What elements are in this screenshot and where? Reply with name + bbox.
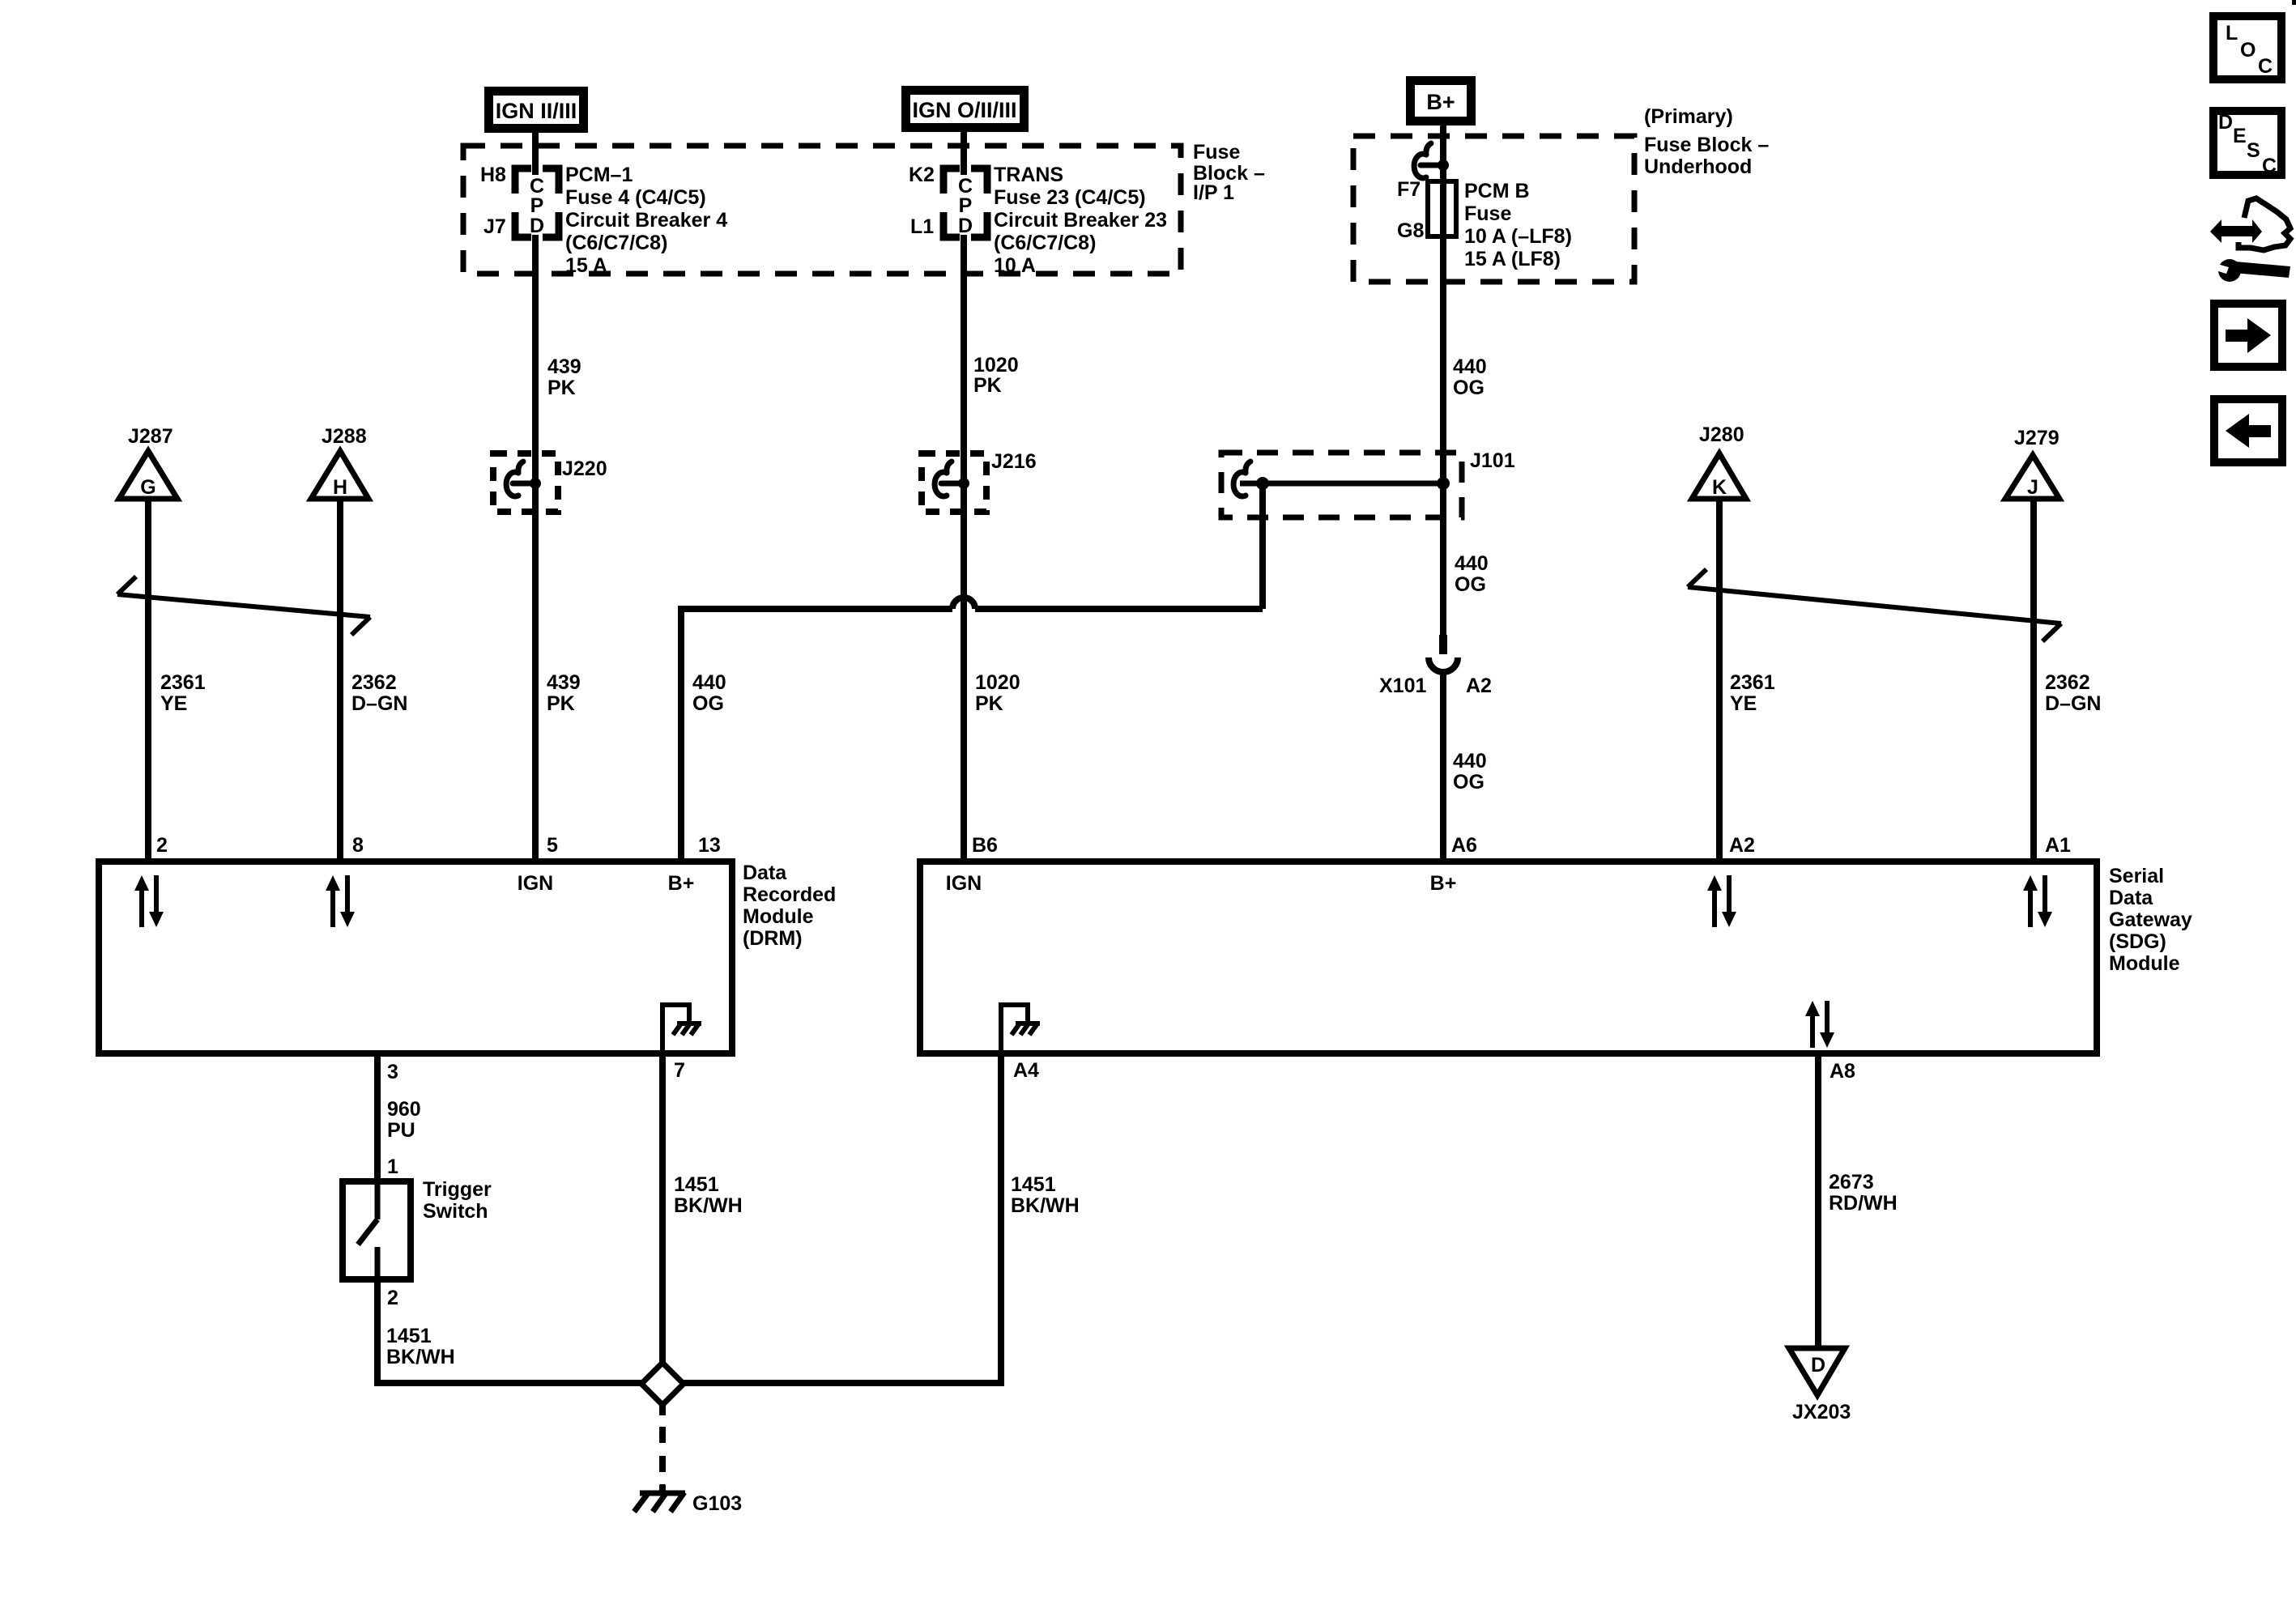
- connector J220 symbol: [506, 462, 535, 496]
- serial data arrows pin A2: [1707, 875, 1736, 927]
- wire 440 OG branch horizontal (hop over 1020 PK): [975, 606, 1263, 612]
- label Serial Data Gateway (SDG) Module: [2109, 865, 2192, 975]
- svg-text:X101: X101: [1379, 674, 1426, 697]
- wire 1451 BK/WH: DRM pin 7 to splice: [659, 1050, 666, 1363]
- fuse block Underhood dashed box: [1353, 136, 1634, 282]
- svg-text:440: 440: [1453, 355, 1487, 378]
- svg-text:439: 439: [547, 671, 581, 694]
- svg-text:1451: 1451: [386, 1325, 432, 1347]
- icon DESC box: [2213, 111, 2281, 177]
- crossing marker right: [1688, 569, 2061, 641]
- wire IGN O/II/III tag to CPD fuse: [961, 130, 967, 175]
- svg-text:2: 2: [387, 1287, 398, 1309]
- trigger switch: [343, 1181, 411, 1279]
- wire 2362 D-GN: J279 to SDG pin A1: [2030, 499, 2037, 865]
- svg-text:PU: PU: [387, 1119, 415, 1142]
- connector symbol in underhood fuse block: [1414, 143, 1443, 178]
- svg-text:K2: K2: [909, 164, 935, 186]
- svg-text:Trigger: Trigger: [423, 1178, 492, 1201]
- wire 1451 BK/WH: switch down: [374, 1279, 381, 1386]
- connector triangle J (J279): [2005, 455, 2060, 499]
- svg-text:A4: A4: [1013, 1059, 1039, 1082]
- svg-text:Module: Module: [2109, 952, 2180, 975]
- svg-text:J216: J216: [991, 450, 1037, 473]
- tag IGN O/II/III: [906, 91, 1024, 128]
- fuse CPD PCM-1 bracket symbol: [515, 168, 559, 237]
- wire J101 internal: [1240, 481, 1443, 487]
- wire 439 PK: PCM-1 fuse to DRM pin 5: [532, 235, 539, 865]
- wire 1451 BK/WH: SDG pin A4 down: [998, 1050, 1004, 1386]
- svg-text:(DRM): (DRM): [743, 927, 803, 950]
- svg-text:OG: OG: [1453, 771, 1485, 794]
- svg-text:Fuse 4 (C4/C5): Fuse 4 (C4/C5): [565, 186, 706, 209]
- svg-text:D–GN: D–GN: [2045, 692, 2101, 715]
- svg-text:G: G: [140, 476, 155, 499]
- svg-text:BK/WH: BK/WH: [1011, 1194, 1080, 1217]
- serial data arrows pin A1: [2023, 875, 2052, 927]
- svg-text:Fuse: Fuse: [1464, 202, 1511, 225]
- svg-text:B+: B+: [1426, 90, 1455, 114]
- svg-text:PCM B: PCM B: [1464, 180, 1530, 202]
- svg-text:8: 8: [352, 834, 364, 857]
- svg-text:B+: B+: [1430, 872, 1457, 895]
- letters C P D: [958, 175, 973, 237]
- svg-text:A1: A1: [2045, 834, 2071, 857]
- svg-text:Serial: Serial: [2109, 865, 2164, 887]
- svg-text:960: 960: [387, 1098, 421, 1121]
- svg-text:2361: 2361: [1730, 671, 1775, 694]
- svg-text:1020: 1020: [973, 354, 1019, 377]
- svg-text:A2: A2: [1466, 674, 1492, 697]
- svg-text:P: P: [530, 194, 544, 217]
- svg-text:PK: PK: [975, 692, 1003, 715]
- svg-text:D: D: [2218, 111, 2233, 134]
- svg-text:7: 7: [674, 1059, 685, 1082]
- svg-text:OG: OG: [692, 692, 724, 715]
- svg-text:D: D: [530, 215, 544, 237]
- svg-text:IGN: IGN: [518, 872, 553, 895]
- svg-text:J280: J280: [1699, 423, 1744, 446]
- connector J216 dashed box: [922, 453, 986, 512]
- svg-text:Circuit Breaker 4: Circuit Breaker 4: [565, 209, 727, 232]
- label Data Recorded Module (DRM): [743, 862, 836, 950]
- wire IGN II/III tag to CPD fuse: [532, 131, 539, 175]
- ground G103: [634, 1484, 685, 1512]
- wire 2361 YE: J280 to SDG pin A2: [1716, 499, 1723, 865]
- svg-text:2362: 2362: [2045, 671, 2090, 694]
- connector X101 female cup: [1429, 657, 1458, 672]
- svg-text:O: O: [2240, 39, 2256, 62]
- svg-text:10 A: 10 A: [994, 254, 1036, 277]
- svg-text:J288: J288: [322, 425, 367, 448]
- svg-text:H8: H8: [480, 164, 506, 186]
- node J101 branch dot: [1256, 477, 1269, 490]
- wire 2362 D-GN: J288 to DRM pin 8: [337, 499, 343, 865]
- svg-text:Module: Module: [743, 905, 814, 928]
- svg-text:Circuit Breaker 23: Circuit Breaker 23: [994, 209, 1167, 232]
- svg-text:15 A (LF8): 15 A (LF8): [1464, 248, 1561, 270]
- svg-text:J: J: [2027, 476, 2038, 499]
- connector J216 symbol: [935, 462, 964, 496]
- wire splice to ground (dashed): [659, 1405, 666, 1415]
- svg-text:YE: YE: [160, 692, 187, 715]
- svg-text:2361: 2361: [160, 671, 206, 694]
- svg-text:K: K: [1712, 476, 1727, 499]
- fuse block I/P 1 dashed box: [463, 146, 1181, 274]
- svg-text:PK: PK: [547, 377, 576, 399]
- svg-text:RD/WH: RD/WH: [1829, 1192, 1898, 1215]
- svg-text:JX203: JX203: [1792, 1401, 1851, 1423]
- serial data arrows pin 8: [326, 875, 355, 927]
- svg-text:PK: PK: [973, 374, 1002, 397]
- module SDG box: [920, 862, 2097, 1053]
- svg-text:1451: 1451: [1011, 1173, 1056, 1196]
- case ground SDG (pin A4): [1001, 1005, 1040, 1050]
- svg-text:OG: OG: [1453, 377, 1485, 399]
- corner mark: [2292, 0, 2296, 5]
- label PCM-1 fuse: [565, 164, 727, 277]
- svg-text:2: 2: [156, 834, 168, 857]
- svg-text:PCM–1: PCM–1: [565, 164, 633, 186]
- splice diamond: [641, 1363, 684, 1405]
- svg-text:1: 1: [387, 1155, 398, 1178]
- svg-text:L1: L1: [910, 215, 934, 238]
- wire 1020 PK: TRANS fuse to SDG pin B6: [961, 235, 967, 865]
- icon LOC box: [2213, 16, 2281, 79]
- case ground DRM (pin 7): [662, 1005, 701, 1050]
- svg-text:A2: A2: [1729, 834, 1755, 857]
- svg-text:G8: G8: [1397, 219, 1424, 242]
- letters C P D: [530, 175, 544, 237]
- svg-text:J287: J287: [128, 425, 173, 448]
- connector triangle G (J287): [119, 451, 177, 499]
- wire ground run left: [377, 1380, 641, 1386]
- svg-text:H: H: [333, 476, 347, 499]
- svg-text:Fuse: Fuse: [1193, 141, 1240, 164]
- svg-text:Fuse 23 (C4/C5): Fuse 23 (C4/C5): [994, 186, 1146, 209]
- label PCM B fuse: [1464, 180, 1572, 270]
- tag B+: [1411, 81, 1472, 121]
- svg-text:D–GN: D–GN: [351, 692, 407, 715]
- svg-text:J101: J101: [1470, 449, 1515, 472]
- svg-text:439: 439: [547, 355, 581, 378]
- wire 2673 RD/WH: SDG pin A8 to JX203: [1815, 1050, 1821, 1348]
- icon arrow left box: [2214, 399, 2282, 462]
- svg-text:3: 3: [387, 1061, 398, 1083]
- wire 960 PU: DRM pin 3 to trigger switch: [374, 1050, 381, 1181]
- svg-text:Switch: Switch: [423, 1200, 488, 1223]
- svg-text:J279: J279: [2014, 427, 2060, 449]
- svg-text:P: P: [959, 194, 973, 217]
- wire 2361 YE: J287 to DRM pin 2: [145, 499, 151, 865]
- svg-text:C: C: [2258, 55, 2273, 78]
- svg-text:13: 13: [698, 834, 721, 857]
- svg-text:1451: 1451: [674, 1173, 719, 1196]
- svg-text:YE: YE: [1730, 692, 1757, 715]
- svg-text:J220: J220: [562, 457, 607, 480]
- connector triangle H (J288): [311, 451, 368, 499]
- connector triangle K (J280): [1692, 453, 1746, 499]
- svg-text:440: 440: [1453, 750, 1487, 772]
- svg-text:S: S: [2247, 139, 2260, 162]
- svg-text:B6: B6: [972, 834, 998, 857]
- svg-text:C: C: [2262, 155, 2277, 177]
- fuse CPD TRANS bracket symbol: [944, 168, 987, 237]
- wire 440 OG: fuse G8 down through J101 to X101: [1440, 235, 1446, 635]
- splice J101 dashed box: [1221, 453, 1462, 517]
- svg-text:Underhood: Underhood: [1644, 155, 1752, 178]
- svg-text:L: L: [2226, 22, 2238, 45]
- svg-text:IGN O/II/III: IGN O/II/III: [912, 98, 1016, 122]
- wire 440 OG branch: J101 down to corner: [1259, 483, 1266, 609]
- svg-text:D: D: [958, 215, 973, 237]
- svg-text:15 A: 15 A: [565, 254, 607, 277]
- svg-text:(C6/C7/C8): (C6/C7/C8): [565, 232, 667, 254]
- icon troubleshooting (arrow + wrench): [2210, 198, 2290, 282]
- svg-text:10 A (–LF8): 10 A (–LF8): [1464, 225, 1572, 248]
- wire ground run right: [684, 1380, 1001, 1386]
- splice J101 symbol: [1233, 462, 1250, 496]
- svg-text:Recorded: Recorded: [743, 883, 836, 906]
- connector X101 male blade: [1439, 635, 1447, 654]
- svg-text:IGN: IGN: [946, 872, 982, 895]
- svg-text:(C6/C7/C8): (C6/C7/C8): [994, 232, 1096, 254]
- wire B+ tag to fuse F7: [1440, 124, 1446, 183]
- svg-text:1020: 1020: [975, 671, 1020, 694]
- svg-text:A6: A6: [1451, 834, 1477, 857]
- svg-text:BK/WH: BK/WH: [674, 1194, 743, 1217]
- serial data arrows pin A8: [1805, 1001, 1834, 1048]
- svg-text:IGN II/III: IGN II/III: [496, 99, 577, 123]
- wire 440 OG: X101 to SDG pin A6: [1440, 672, 1446, 865]
- svg-text:A8: A8: [1830, 1060, 1855, 1083]
- serial data arrows pin 2: [134, 875, 164, 927]
- svg-text:I/P 1: I/P 1: [1193, 181, 1234, 204]
- crossing marker left: [117, 577, 370, 635]
- fuse PCM B (F7/G8): [1428, 181, 1456, 236]
- label TRANS fuse: [994, 164, 1167, 277]
- svg-text:D: D: [1811, 1354, 1825, 1377]
- module DRM box: [99, 862, 732, 1053]
- svg-text:Data: Data: [743, 862, 787, 884]
- svg-text:5: 5: [547, 834, 558, 857]
- tag IGN II/III: [489, 91, 584, 129]
- svg-text:Fuse Block –: Fuse Block –: [1644, 134, 1769, 156]
- svg-text:440: 440: [1455, 552, 1489, 575]
- svg-text:E: E: [2233, 125, 2247, 147]
- svg-text:(SDG): (SDG): [2109, 930, 2166, 953]
- svg-text:440: 440: [692, 671, 726, 694]
- svg-text:J7: J7: [483, 215, 506, 238]
- svg-text:Data: Data: [2109, 887, 2153, 909]
- svg-text:F7: F7: [1397, 178, 1421, 201]
- connector J220 dashed box: [493, 453, 558, 512]
- svg-text:BK/WH: BK/WH: [386, 1346, 455, 1368]
- svg-text:G103: G103: [692, 1492, 742, 1515]
- svg-text:(Primary): (Primary): [1644, 105, 1733, 128]
- node J101 main dot: [1437, 477, 1450, 490]
- svg-text:TRANS: TRANS: [994, 164, 1063, 186]
- connector triangle D (JX203): [1789, 1348, 1845, 1395]
- svg-text:OG: OG: [1455, 573, 1486, 596]
- svg-text:PK: PK: [547, 692, 575, 715]
- svg-text:B+: B+: [668, 872, 695, 895]
- icon arrow right box: [2214, 304, 2282, 367]
- svg-text:2362: 2362: [351, 671, 397, 694]
- svg-text:Gateway: Gateway: [2109, 908, 2192, 931]
- svg-text:2673: 2673: [1829, 1171, 1874, 1194]
